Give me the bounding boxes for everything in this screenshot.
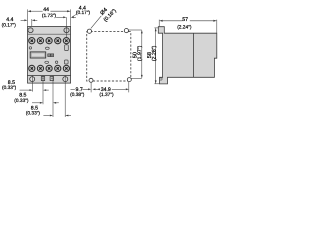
svg-text:8.5: 8.5 xyxy=(31,105,38,111)
dim 8.5 #1 line with arrows xyxy=(20,89,49,91)
svg-text:9.7: 9.7 xyxy=(76,87,83,93)
hole top-right xyxy=(124,29,128,33)
terminal screws top row xyxy=(29,38,70,44)
svg-text:(0.33"): (0.33") xyxy=(2,85,17,91)
svg-text:44: 44 xyxy=(43,7,49,13)
ext line hole col 1 xyxy=(90,83,92,93)
nameplate window xyxy=(30,52,46,58)
ext line bottom col 2 xyxy=(42,76,44,105)
dim 4.4 right leader xyxy=(72,14,76,16)
dim 34.9 line with arrows xyxy=(92,88,128,90)
top-right mounting hole xyxy=(64,28,69,33)
tab under top coil screw xyxy=(65,45,69,51)
bottom slot tab 2 xyxy=(50,77,53,81)
ext line hole col 2 xyxy=(128,82,130,93)
dim 9.7 line with arrows xyxy=(71,88,100,90)
hole bottom-left xyxy=(89,78,93,82)
svg-text:57: 57 xyxy=(182,17,188,23)
dim 50 label rotated xyxy=(133,45,143,61)
dim 57 extension line right xyxy=(216,20,218,33)
dim 8.5 #3 line with arrows xyxy=(43,115,71,117)
ext line bottom col 3 xyxy=(52,76,54,117)
small oval lower-middle xyxy=(45,61,49,63)
dim 57 line with arrows xyxy=(159,20,217,22)
tab above bottom coil screw xyxy=(64,60,68,64)
ext line bottom col 1 xyxy=(32,76,34,92)
svg-text:8.5: 8.5 xyxy=(8,80,15,86)
svg-text:(0.17"): (0.17") xyxy=(2,22,17,28)
svg-text:34.9: 34.9 xyxy=(101,87,111,93)
svg-text:(0.17"): (0.17") xyxy=(76,10,91,16)
ext line bottom col 4 xyxy=(64,76,66,117)
bottom-right fixing hole xyxy=(63,77,68,82)
svg-text:(2.24"): (2.24") xyxy=(177,25,192,31)
svg-text:8.5: 8.5 xyxy=(19,93,26,99)
diameter label rotated xyxy=(98,3,118,23)
terminal screws bottom row xyxy=(29,65,70,71)
svg-text:(1.73"): (1.73") xyxy=(42,13,57,19)
foot spring detail xyxy=(160,78,162,80)
dim 58 stub bottom xyxy=(154,83,159,85)
small oval upper-middle xyxy=(45,47,49,49)
svg-text:(0.33"): (0.33") xyxy=(14,98,29,104)
dim 4.4 right extension line through coil terminal xyxy=(65,17,67,45)
dim 57 extension line left xyxy=(158,20,160,27)
side view body with DIN hook and foot xyxy=(158,27,217,84)
diameter label leader xyxy=(91,16,102,29)
hole top-left xyxy=(87,29,91,33)
top band seam xyxy=(28,33,71,35)
dim 44 line with arrows xyxy=(28,10,71,12)
hole bottom-right xyxy=(127,78,131,82)
side view divider line xyxy=(193,33,195,77)
drilling plan dashed outline xyxy=(87,32,131,81)
small circle lower-right xyxy=(55,61,57,63)
contactor front body xyxy=(28,26,71,75)
dim 50 stub top xyxy=(129,29,142,31)
dim 50 line with arrows xyxy=(141,30,143,78)
dim 50 stub bottom xyxy=(131,77,142,79)
dim 4.4 left extension line xyxy=(31,19,33,26)
dim 44 extension line right xyxy=(70,9,72,26)
dim 8.5 #2 line with arrows xyxy=(32,102,59,104)
svg-text:(0.33"): (0.33") xyxy=(26,110,41,116)
svg-text:(2.28"): (2.28") xyxy=(152,45,158,61)
svg-text:(1.97"): (1.97") xyxy=(137,45,143,61)
small circle indicator upper-left xyxy=(29,47,31,49)
top-left mounting hole xyxy=(28,28,33,33)
svg-text:4.4: 4.4 xyxy=(6,17,13,23)
dim 44 extension line left xyxy=(27,9,29,26)
bottom-left fixing hole xyxy=(30,77,35,82)
dim 4.4 left arrows xyxy=(21,19,38,21)
bottom mounting strip xyxy=(28,75,71,83)
bottom slot tab 1 xyxy=(41,77,44,81)
svg-text:(1.37"): (1.37") xyxy=(99,92,114,98)
svg-text:(0.38"): (0.38") xyxy=(70,92,85,98)
small block element right of nameplate xyxy=(48,54,54,57)
dim 4.4 right arrows xyxy=(56,16,76,18)
dim 58 stub top xyxy=(154,27,158,29)
dim 58 line with arrows xyxy=(155,28,157,84)
dim 58 label rotated xyxy=(147,45,157,61)
